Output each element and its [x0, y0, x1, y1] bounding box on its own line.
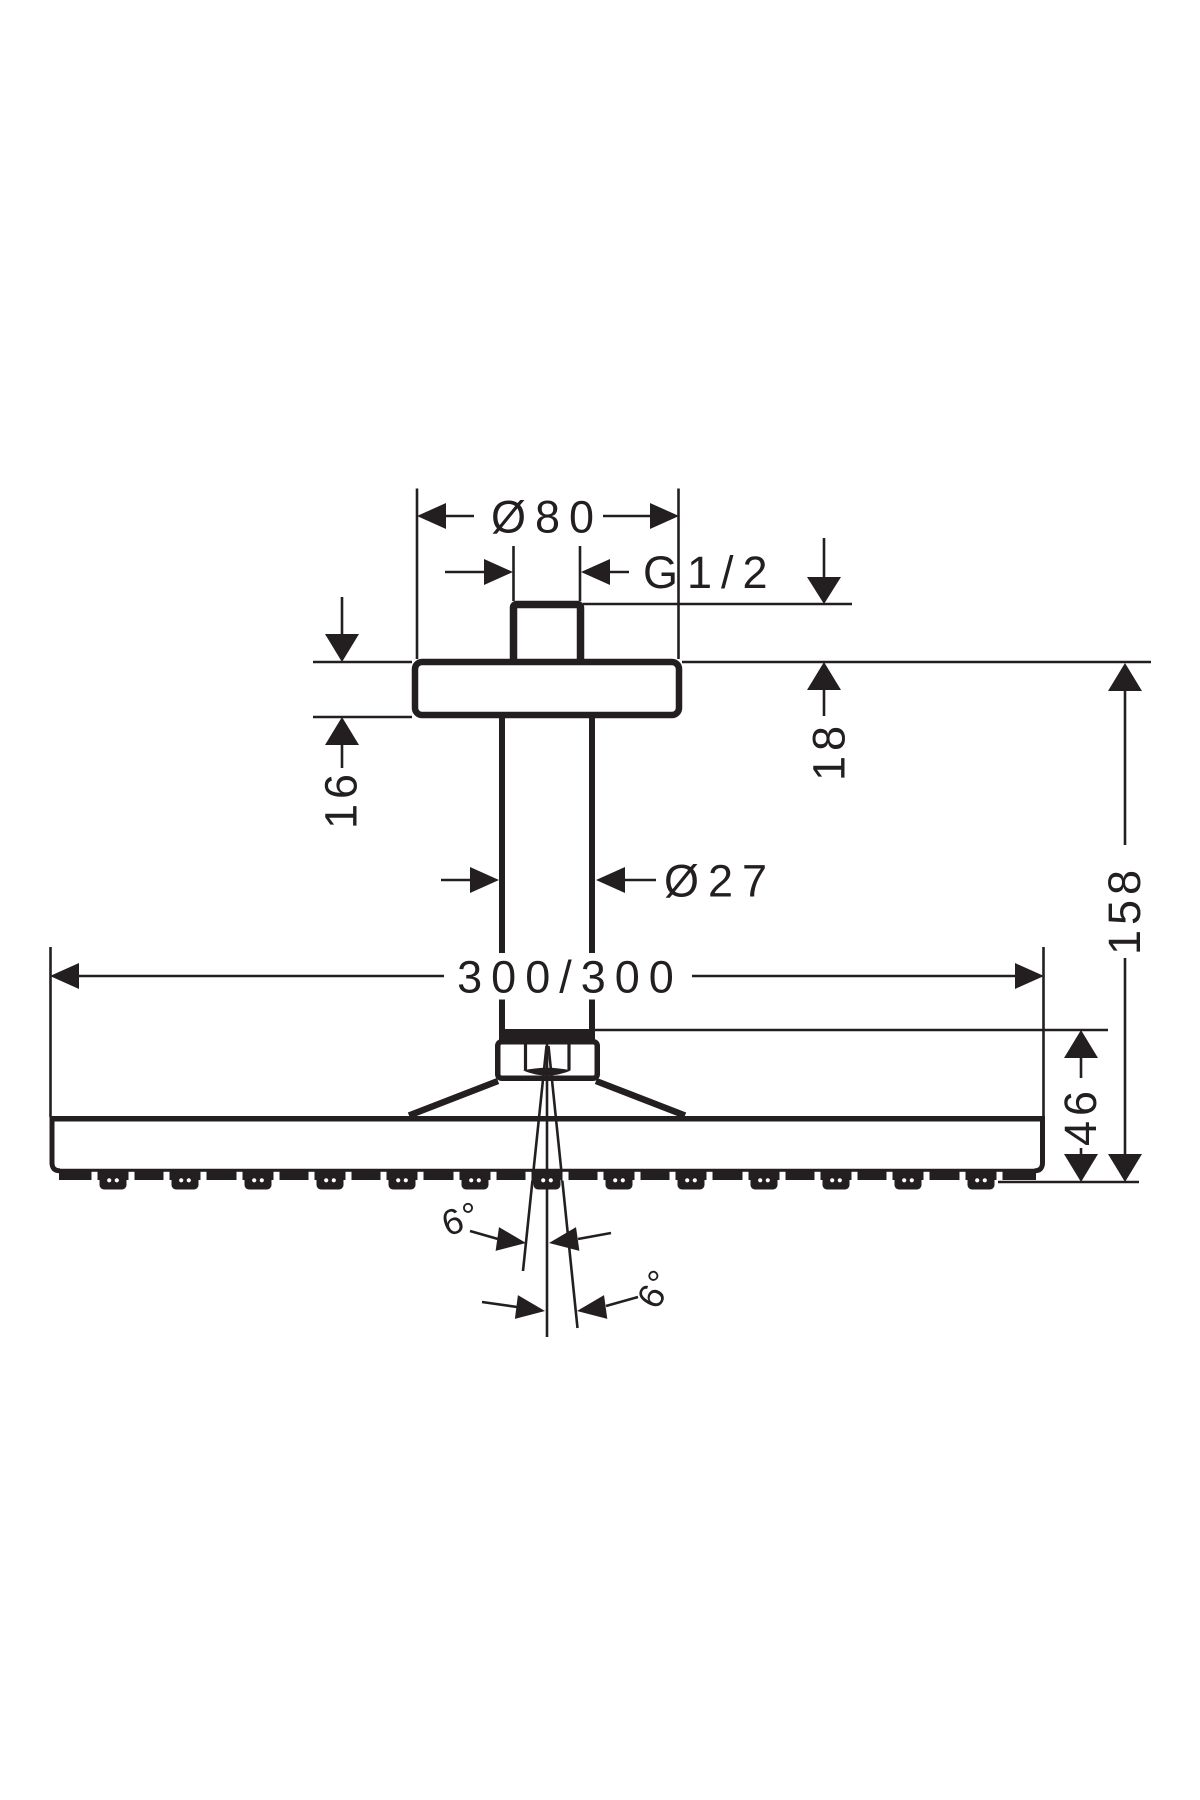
angle 6deg lower arrow right: [515, 1295, 545, 1319]
spray line center: [546, 1042, 549, 1337]
nipple top reference line: [583, 603, 852, 606]
dim Ø80 ext right: [677, 489, 680, 660]
pipe wall right: [589, 718, 595, 1031]
dim 300/300 ext right: [1042, 947, 1045, 1117]
dim 158 arrow down: [1108, 1154, 1142, 1182]
dim 158 lower tail: [1124, 958, 1127, 1155]
dim 300/300 ext left: [49, 947, 52, 1117]
svg-text:46: 46: [1055, 1086, 1106, 1146]
nut inner right: [567, 1042, 570, 1070]
pipe wall left: [499, 718, 505, 1031]
dim G1/2 ext right: [579, 546, 582, 601]
svg-text:300/300: 300/300: [457, 952, 683, 1003]
connection bar: [499, 1029, 595, 1040]
dim Ø27 arrow left: [470, 867, 499, 893]
svg-text:158: 158: [1099, 865, 1150, 955]
nut top reference line: [595, 1029, 1108, 1032]
dim Ø80 line right: [603, 515, 652, 518]
flange top reference line left: [313, 661, 412, 664]
angle 6deg lower arrow left: [577, 1295, 607, 1319]
dim 18 lower tail: [823, 690, 826, 716]
dim 46 upper tail: [1080, 1058, 1083, 1078]
dim Ø80 arrow right: [650, 503, 679, 529]
nut inner dish: [523, 1068, 571, 1076]
svg-text:16: 16: [316, 769, 367, 829]
dim 46 arrow up: [1064, 1030, 1098, 1058]
dim Ø27 arrow right: [596, 867, 625, 893]
bottom reference line: [998, 1181, 1139, 1184]
dim Ø27 tail left: [441, 879, 472, 882]
angle 6deg upper arrow right: [496, 1227, 526, 1251]
angle 6deg lower tail right: [606, 1297, 638, 1306]
dim G1/2 ext left: [512, 546, 515, 601]
shower head right edge: [1035, 1119, 1043, 1171]
dome slope left: [409, 1081, 498, 1116]
dim 18 arrow down: [807, 577, 841, 604]
dim 18 upper tail: [823, 538, 826, 578]
dim 16 arrow up: [325, 717, 359, 745]
svg-text:18: 18: [804, 721, 855, 781]
dim G1/2 tail right: [610, 571, 629, 574]
dim G1/2 tail left: [445, 571, 486, 574]
dome slope right: [596, 1081, 685, 1116]
dim G1/2 arrow left: [484, 559, 513, 585]
shower head bottom edge: [58, 1169, 1036, 1173]
text mask over pipe for 300/300: [452, 953, 690, 1000]
spray line tilted left 6deg: [523, 1046, 547, 1271]
angle 6deg lower tail left: [482, 1302, 517, 1307]
nut inner left: [524, 1042, 527, 1070]
nozzle strip: [59, 1172, 1036, 1190]
connector nipple G1/2: [514, 605, 581, 665]
shower head top edge: [50, 1116, 1046, 1122]
dim 300/300 arrow right: [1015, 963, 1044, 989]
dim 158 arrow up: [1108, 663, 1142, 691]
dim G1/2 arrow right: [581, 559, 610, 585]
spray line tilted right 6deg: [549, 1046, 578, 1328]
dim 300/300 arrow left: [50, 963, 79, 989]
angle 6deg upper arrow left: [549, 1227, 579, 1251]
dim Ø80 ext left: [416, 489, 419, 660]
svg-text:G1/2: G1/2: [643, 547, 777, 598]
angle 6deg upper tail left: [470, 1231, 498, 1239]
dim Ø80 line left: [444, 515, 474, 518]
svg-text:Ø80: Ø80: [491, 492, 603, 543]
shower head left edge: [52, 1119, 60, 1171]
dim 16 arrow down: [325, 634, 359, 662]
nut: [498, 1042, 598, 1079]
flange top reference line right: [682, 661, 1151, 664]
dim Ø27 tail right: [625, 879, 656, 882]
dim 16 lower tail: [341, 745, 344, 768]
angle 6deg upper tail right: [578, 1233, 611, 1239]
dim 46 lower tail: [1080, 1148, 1083, 1155]
dim 16 upper tail: [341, 597, 344, 635]
dim 46 arrow down: [1064, 1154, 1098, 1182]
dim 158 upper tail: [1124, 691, 1127, 845]
flange bottom reference line left: [313, 716, 412, 719]
dim 300/300 line right: [692, 975, 1015, 978]
dim 18 arrow up: [807, 662, 841, 690]
dim 300/300 line left: [79, 975, 444, 978]
dim Ø80 arrow left: [417, 503, 446, 529]
ceiling flange: [415, 662, 679, 715]
svg-text:Ø27: Ø27: [664, 856, 776, 907]
